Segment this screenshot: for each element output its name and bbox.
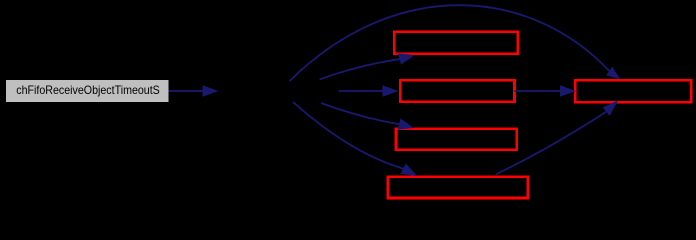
svg-text:chFifoReceiveObjectTimeoutS: chFifoReceiveObjectTimeoutS bbox=[16, 83, 160, 97]
